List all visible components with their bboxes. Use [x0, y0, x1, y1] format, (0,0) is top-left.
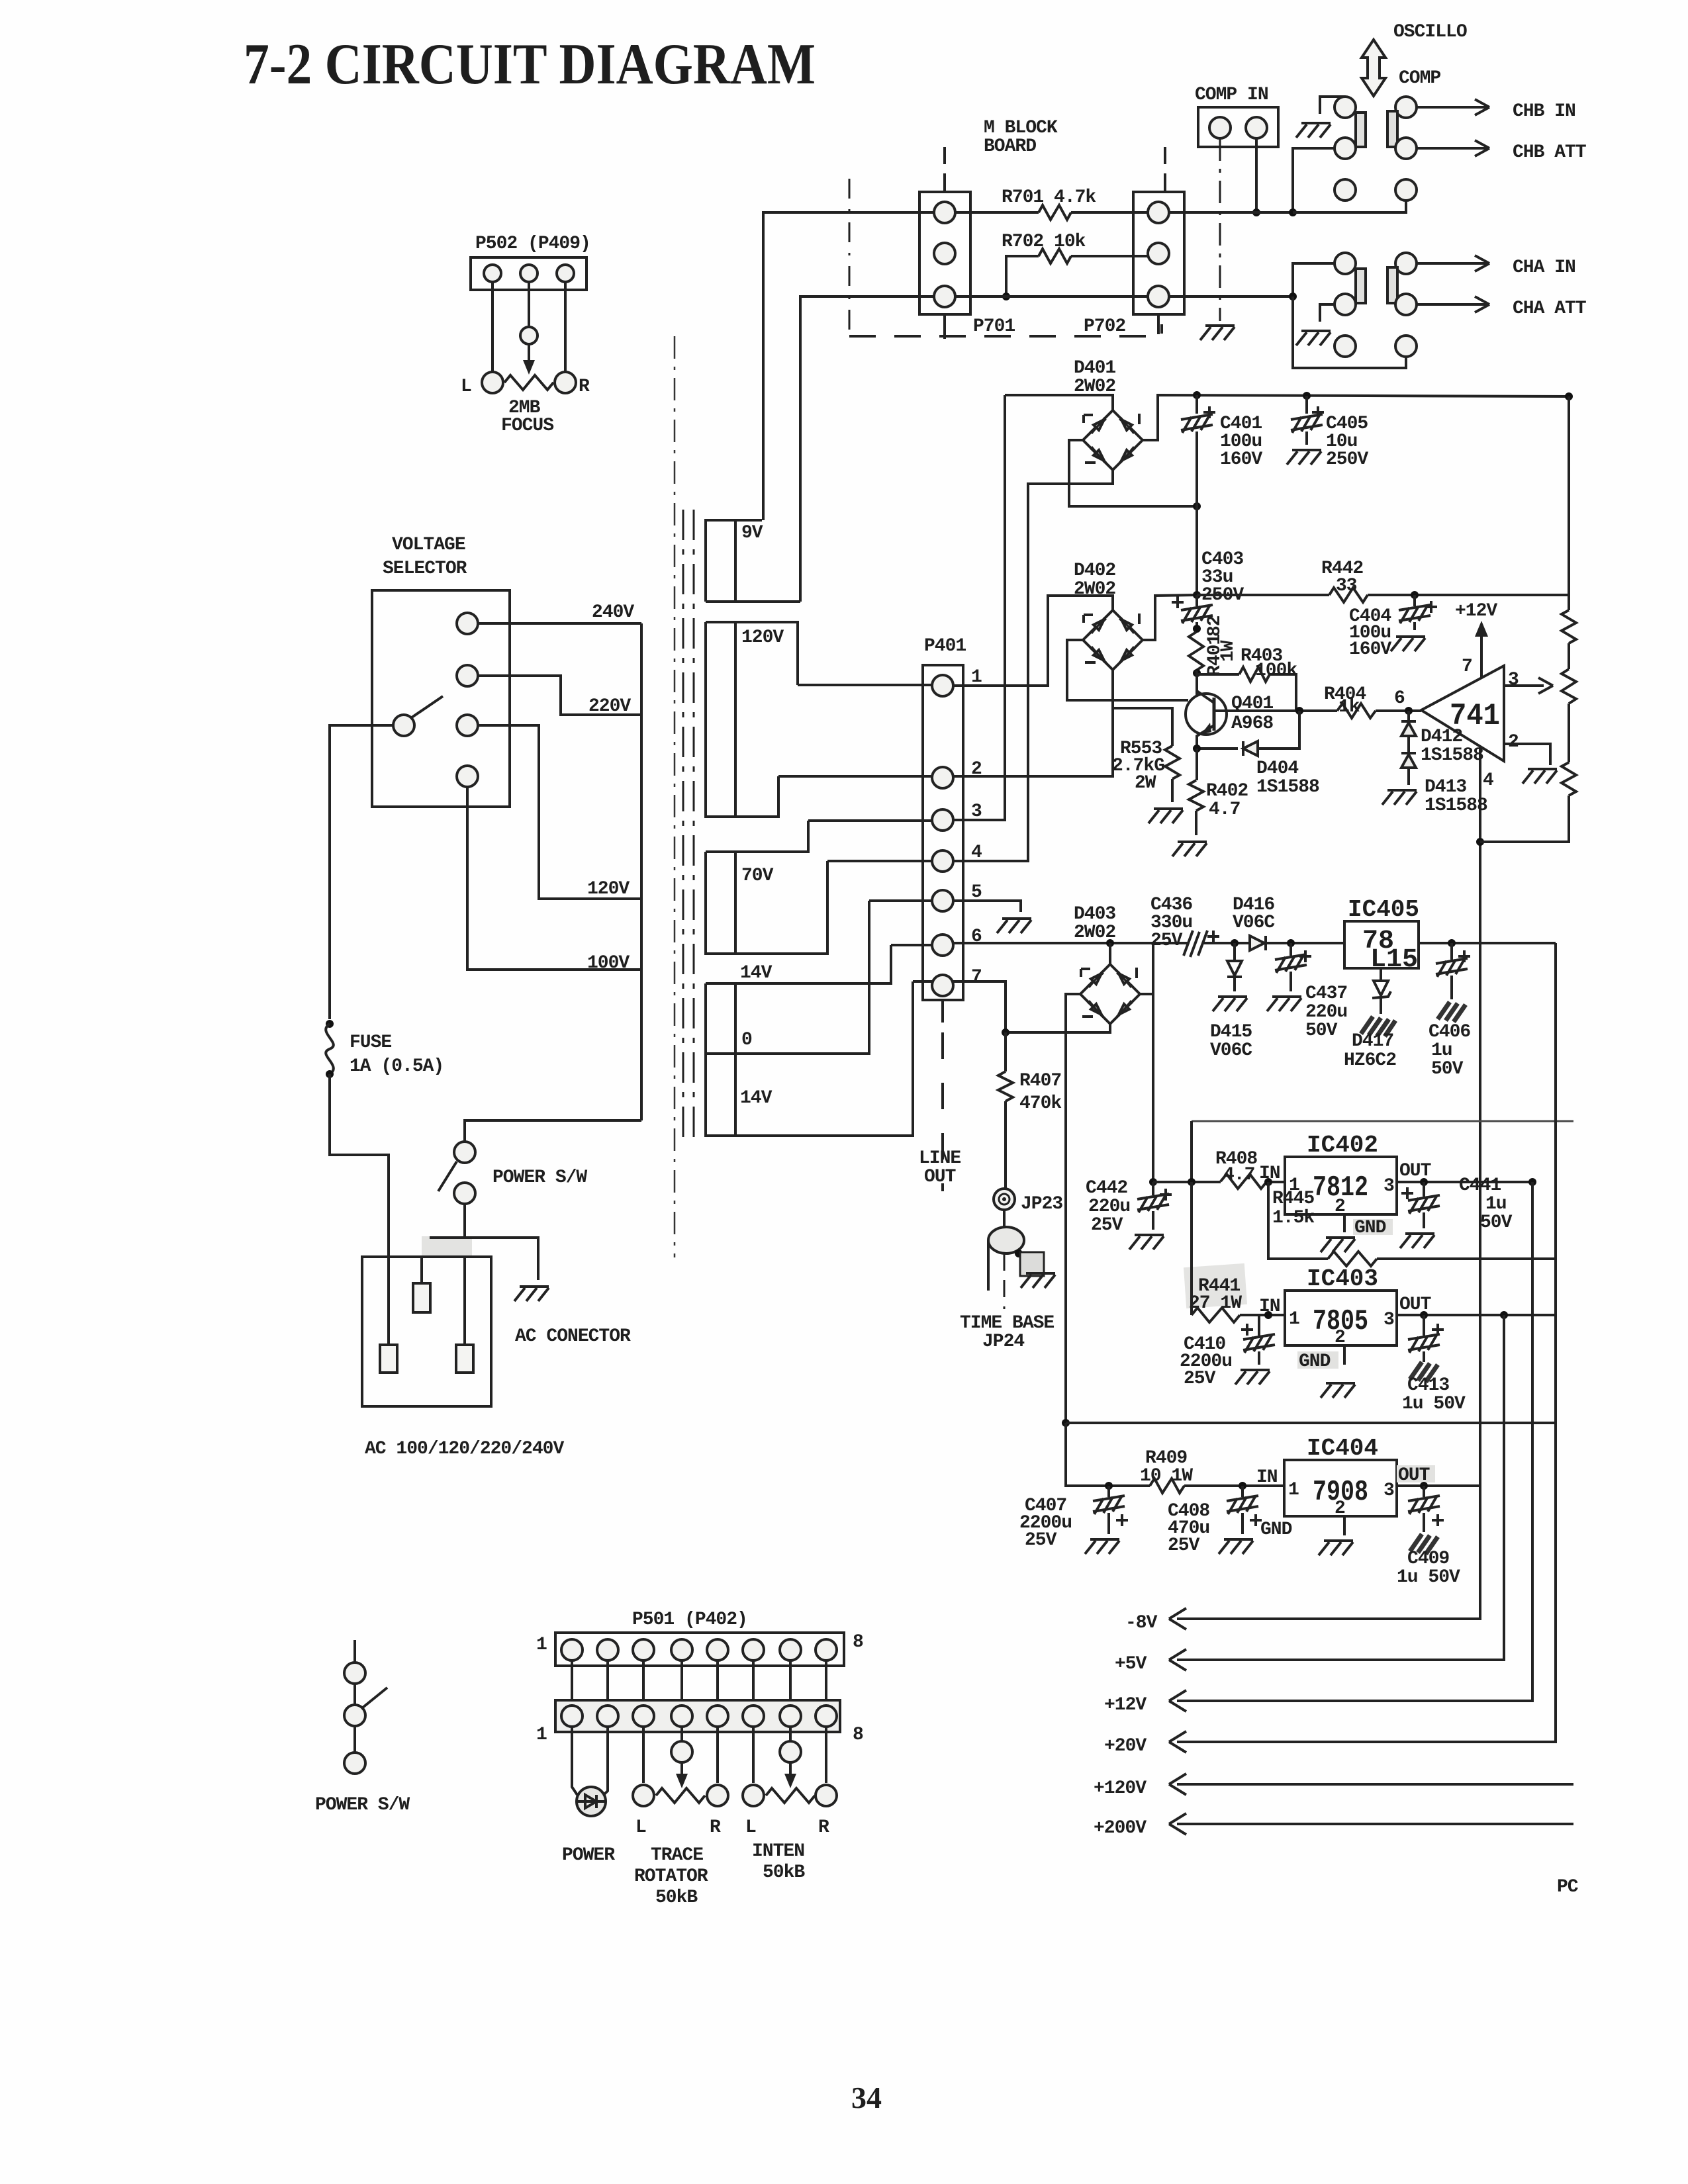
svg-text:9V: 9V — [741, 523, 763, 543]
selector contact 240V — [457, 613, 478, 634]
svg-text:ROTATOR: ROTATOR — [634, 1866, 708, 1887]
gray blob R441 — [1184, 1263, 1247, 1308]
IC404 output rail — [1397, 1484, 1480, 1487]
svg-text:D401: D401 — [1074, 358, 1115, 379]
svg-text:+120V: +120V — [1094, 1778, 1147, 1799]
LED POWER — [577, 1787, 606, 1816]
svg-text:120V: 120V — [741, 627, 784, 648]
switch POWER S/W contact bottom — [454, 1183, 475, 1204]
capacitor C413 — [1423, 1315, 1425, 1362]
AC connector left prong — [380, 1345, 397, 1373]
wire 220V tap — [478, 676, 641, 715]
secondary winding 70V — [706, 821, 827, 954]
svg-text:AC CONECTOR: AC CONECTOR — [515, 1326, 631, 1347]
svg-text:1A (0.5A): 1A (0.5A) — [350, 1056, 444, 1077]
svg-text:4.7: 4.7 — [1209, 799, 1240, 820]
ground at AC connector — [514, 1287, 549, 1301]
resistor R442 — [1329, 588, 1368, 602]
svg-text:AC 100/120/220/240V: AC 100/120/220/240V — [365, 1439, 564, 1459]
wire pin1 to LED — [572, 1727, 577, 1795]
TRACE wiper node — [671, 1741, 692, 1762]
connector P502 pin 1 — [484, 265, 501, 282]
svg-text:IC402: IC402 — [1307, 1132, 1378, 1159]
svg-text:C409: C409 — [1407, 1549, 1449, 1569]
capacitor C409 — [1423, 1486, 1425, 1532]
svg-text:PC: PC — [1557, 1877, 1579, 1897]
ground below C408 — [1219, 1539, 1253, 1554]
TRACE wiper arrow — [680, 1762, 683, 1782]
junction dot D404 left — [1193, 745, 1201, 752]
IC404 input rail — [1109, 1484, 1150, 1487]
bridge rectifier D401 — [1083, 410, 1143, 470]
junction dot C409 — [1420, 1482, 1428, 1490]
svg-text:SELECTOR: SELECTOR — [383, 559, 467, 579]
svg-text:2: 2 — [1508, 732, 1519, 752]
zener diode D415 — [1227, 943, 1242, 991]
wire D403 top corner — [1109, 943, 1111, 964]
node JP23 — [994, 1189, 1015, 1210]
svg-text:25V: 25V — [1150, 931, 1183, 951]
svg-text:3: 3 — [1383, 1176, 1394, 1197]
wire 70V top tap to pin3 — [808, 819, 932, 822]
svg-text:1.5k: 1.5k — [1272, 1208, 1315, 1228]
wire D401 minus corner to lower rail — [1069, 440, 1197, 506]
connector P702 pin 3 — [1148, 286, 1169, 307]
connector P701 pin 3 — [934, 286, 955, 307]
switch POWER S/W bottom-left contact 1 — [344, 1662, 365, 1684]
connector P701 box — [919, 192, 970, 314]
dashed stub above P701 — [943, 147, 946, 191]
P401 pin 6 — [932, 934, 953, 956]
svg-text:+20V: +20V — [1104, 1736, 1147, 1756]
wire CHB IN arrow — [1417, 99, 1489, 115]
IC403 GND pin wire — [1343, 1345, 1346, 1365]
svg-text:3: 3 — [1383, 1310, 1394, 1330]
AC connector shaded bar — [422, 1236, 472, 1257]
wire 100V tap — [467, 787, 641, 970]
svg-text:2: 2 — [1335, 1328, 1345, 1348]
COMP IN pin 2 — [1246, 117, 1267, 138]
capacitor C442 — [1152, 1182, 1154, 1230]
wire pin5 to TRACE pot R — [716, 1727, 719, 1783]
junction dot +12V corner — [1528, 1178, 1536, 1186]
junction dot C408 — [1239, 1482, 1246, 1490]
selector contact 120V — [457, 715, 478, 736]
svg-text:10 1W: 10 1W — [1140, 1466, 1193, 1486]
junction dot base node — [1295, 707, 1303, 715]
potentiometer INTEN — [766, 1788, 815, 1803]
svg-text:7: 7 — [1462, 657, 1472, 677]
svg-text:OUT: OUT — [924, 1167, 956, 1187]
diode D413 — [1407, 736, 1410, 754]
IC402 output rail — [1397, 1181, 1532, 1183]
junction dot CHB riser — [1289, 208, 1297, 216]
ground at IC403 — [1321, 1383, 1355, 1398]
svg-text:P701: P701 — [973, 316, 1015, 337]
resistor R553 — [1165, 746, 1180, 779]
secondary 0 tap — [706, 901, 869, 1136]
junction dot pin7 node — [1002, 1028, 1009, 1036]
selector contact 220V — [457, 665, 478, 686]
wire D401 top corner to AC rail — [1005, 395, 1113, 410]
ground below R402 — [1172, 842, 1207, 856]
connector P502 pin 2 — [520, 265, 538, 282]
junction dot C405 top — [1303, 392, 1311, 400]
junction dot C401 top — [1193, 391, 1201, 399]
IC404 GND pin wire — [1343, 1516, 1346, 1535]
svg-text:1u 50V: 1u 50V — [1402, 1394, 1466, 1414]
shield flag — [1020, 1252, 1044, 1276]
regulator IC403 box — [1285, 1291, 1397, 1345]
svg-text:220u: 220u — [1088, 1197, 1130, 1217]
AC connector box — [362, 1257, 491, 1406]
svg-text:8: 8 — [853, 1725, 863, 1745]
wire R701 to P702 pin1 — [1071, 211, 1148, 214]
secondary winding 120V — [706, 622, 798, 817]
svg-text:GND: GND — [1260, 1520, 1292, 1540]
svg-text:L: L — [635, 1817, 646, 1838]
wire CHA ATT arrow — [1417, 296, 1489, 312]
svg-text:R407: R407 — [1019, 1071, 1061, 1091]
ground below C407 — [1085, 1539, 1119, 1554]
wire R553 to ground — [1171, 779, 1174, 802]
secondary winding 14V upper — [706, 945, 891, 1054]
svg-text:100k: 100k — [1255, 660, 1297, 681]
net +20V arrow — [1177, 943, 1556, 1742]
svg-text:0: 0 — [741, 1030, 752, 1050]
wire power switch to AC connector right prong — [463, 1204, 466, 1345]
junction dot R441 branch — [1188, 1178, 1196, 1186]
svg-text:250V: 250V — [1326, 449, 1368, 470]
op-amp 741 triangle — [1421, 666, 1504, 761]
junction dot — [1252, 208, 1260, 216]
selector common contact — [393, 715, 414, 736]
svg-text:+200V: +200V — [1094, 1818, 1147, 1839]
ground below C441 — [1400, 1234, 1434, 1248]
FOCUS pot terminal R — [555, 372, 576, 393]
svg-text:1: 1 — [1289, 1309, 1299, 1330]
dash-dot wire COMP IN pin1 down to ground — [1219, 138, 1221, 321]
rail y1694 to right — [1192, 1120, 1573, 1122]
hatched mark D417 — [1361, 1017, 1395, 1036]
capacitor C437 — [1289, 943, 1292, 991]
wire P401 pin6 rail to IC405 — [953, 942, 1344, 944]
switch POWER S/W contact top — [454, 1142, 475, 1163]
svg-text:R445: R445 — [1272, 1189, 1314, 1209]
wire down to IC404 input rail — [1066, 1423, 1109, 1486]
POWER S/W lever — [438, 1161, 457, 1191]
wire 70V bottom tap to pin4 — [827, 860, 932, 862]
wire D401 bottom corner to P401 pin4 — [953, 470, 1113, 861]
plus mark C437 — [1299, 950, 1311, 962]
svg-text:FUSE: FUSE — [350, 1032, 391, 1053]
switch CHA contact circles row1 — [1335, 253, 1356, 274]
P501 row1 pins — [561, 1639, 583, 1661]
svg-text:D413: D413 — [1425, 777, 1466, 797]
wire R441 to IC403 — [1240, 1314, 1285, 1316]
junction dot CHA riser — [1289, 293, 1297, 300]
wire 120V tap — [478, 725, 641, 899]
svg-text:R: R — [579, 377, 590, 397]
wire IC405 out rail — [1419, 942, 1556, 944]
switch CHB contact circles row1 — [1335, 97, 1356, 118]
svg-text:120V: 120V — [587, 879, 630, 899]
svg-text:25V: 25V — [1025, 1530, 1057, 1551]
wire primary bottom to power switch — [465, 1120, 641, 1142]
svg-text:25V: 25V — [1184, 1369, 1216, 1389]
svg-text:D412: D412 — [1421, 727, 1462, 747]
connector P702 pin 1 — [1148, 202, 1169, 223]
switch CHA ground — [1320, 304, 1335, 322]
OSCILLO/COMP double arrow — [1362, 40, 1385, 96]
junction dot C403 bottom — [1193, 625, 1201, 633]
svg-text:IN: IN — [1259, 1297, 1280, 1317]
svg-text:C442: C442 — [1086, 1178, 1127, 1199]
resistor chain top — [1568, 396, 1570, 610]
switch contact 3 — [344, 1752, 365, 1774]
svg-text:CHB IN: CHB IN — [1513, 101, 1575, 122]
dash-dot board boundary left of core — [674, 336, 676, 1257]
svg-text:R402: R402 — [1206, 781, 1248, 801]
svg-text:7: 7 — [971, 967, 982, 987]
connector COMP IN box — [1198, 107, 1278, 147]
plus mark C407 — [1116, 1514, 1128, 1526]
switch CHA plate bars — [1356, 269, 1366, 303]
svg-text:50kB: 50kB — [655, 1888, 698, 1908]
svg-text:50V: 50V — [1480, 1212, 1513, 1233]
svg-text:TRACE: TRACE — [651, 1845, 703, 1866]
svg-text:IC403: IC403 — [1307, 1265, 1378, 1293]
bridge rectifier D402 — [1083, 610, 1143, 670]
svg-text:D404: D404 — [1256, 758, 1298, 779]
junction dot rail end right — [1565, 392, 1573, 400]
wire 14V upper tap to pin6 — [891, 944, 932, 946]
svg-text:2: 2 — [1335, 1498, 1345, 1519]
junction dot jack shield — [1015, 1250, 1023, 1257]
svg-text:1u 50V: 1u 50V — [1397, 1567, 1460, 1588]
COMP IN pin 1 — [1209, 117, 1231, 138]
svg-text:D402: D402 — [1074, 561, 1115, 581]
capacitor C407 — [1107, 1486, 1110, 1534]
transistor Q401 A968 — [1186, 694, 1227, 735]
capacitor C441 — [1423, 1182, 1425, 1228]
dashed board boundary left — [849, 179, 851, 336]
junction dot C413 — [1420, 1311, 1428, 1319]
junction dot +5V corner — [1500, 1311, 1508, 1319]
svg-text:3: 3 — [1508, 670, 1519, 690]
regulator IC405 box — [1344, 921, 1419, 968]
diode D412 — [1407, 711, 1410, 723]
wire from IC402 input node down — [1190, 1182, 1193, 1315]
wire P502 pin1 to FOCUS L — [491, 282, 494, 372]
junction dot R401 bottom — [1193, 669, 1201, 677]
svg-text:M BLOCK: M BLOCK — [984, 118, 1058, 138]
junction dot pin6 node — [1405, 707, 1413, 715]
svg-text:IC404: IC404 — [1307, 1435, 1378, 1462]
TIME BASE jack JP24 — [988, 1227, 1024, 1253]
wire pin3 to TRACE pot L — [642, 1727, 645, 1783]
wire CHA IN arrow — [1417, 255, 1489, 271]
resistor chain middle — [1568, 643, 1570, 669]
junction dot D403 top — [1106, 939, 1114, 947]
resistor R409 — [1150, 1479, 1184, 1493]
svg-text:160V: 160V — [1220, 449, 1262, 470]
svg-text:P502 (P409): P502 (P409) — [475, 234, 590, 254]
FOCUS pot terminal L — [482, 372, 503, 393]
svg-text:COMP: COMP — [1399, 68, 1440, 89]
svg-text:160V: 160V — [1349, 639, 1391, 660]
voltage selector box — [372, 590, 510, 807]
wire pin4 to wiper — [680, 1727, 683, 1741]
svg-text:JP24: JP24 — [982, 1332, 1024, 1352]
wire pin7 to wiper — [789, 1727, 792, 1741]
wire 14V lower tap to pin7 — [913, 980, 932, 983]
svg-text:50V: 50V — [1431, 1059, 1464, 1079]
plus mark C410 — [1241, 1324, 1253, 1336]
wire pin6 to INTEN pot L — [752, 1727, 755, 1783]
ground at IC402 — [1321, 1238, 1355, 1252]
junction dot C441 — [1420, 1178, 1428, 1186]
wire D403 right corner riser — [1140, 943, 1153, 994]
ground at IC404 — [1319, 1541, 1353, 1555]
wire D402 plus corner to C403 rail — [1143, 595, 1197, 640]
wire Q401 base to R404 — [1214, 709, 1337, 712]
series diode D416 — [1250, 936, 1266, 950]
svg-text:POWER: POWER — [562, 1845, 615, 1866]
potentiometer TRACE ROTATOR — [656, 1788, 705, 1803]
ground at pin5 — [997, 919, 1031, 933]
stub above — [353, 1640, 356, 1662]
plus mark C436 — [1207, 931, 1219, 942]
switch CHB ground — [1320, 97, 1345, 114]
capacitor C401 — [1196, 395, 1198, 506]
rail minus to right — [1066, 1422, 1556, 1424]
svg-text:240V: 240V — [592, 602, 634, 623]
wire COMP IN pin2 down to CHB rail — [1255, 138, 1258, 212]
switch CHB contact circles row2 — [1335, 138, 1356, 159]
wire 120V bottom tap to pin2 — [778, 775, 932, 778]
junction dot pin4 chain — [1476, 838, 1484, 846]
P501 row2 pins — [561, 1706, 583, 1727]
junction dot C401 bottom — [1193, 502, 1201, 510]
resistor R408 — [1221, 1174, 1267, 1189]
ground below C405 — [1287, 450, 1321, 465]
wire CHA bottom return to row3-right — [1293, 296, 1406, 368]
plus mark C409 — [1432, 1514, 1444, 1526]
+12V arrow into pin7 — [1480, 630, 1483, 678]
svg-text:A968: A968 — [1231, 713, 1273, 734]
connector P401 box — [923, 665, 963, 1000]
ground at jack — [1021, 1273, 1055, 1288]
svg-text:220u: 220u — [1305, 1002, 1347, 1023]
net +200V arrow — [1177, 1823, 1573, 1825]
svg-text:JP23: JP23 — [1021, 1194, 1062, 1214]
svg-text:GND: GND — [1299, 1351, 1331, 1372]
connector P702 box — [1133, 192, 1184, 314]
P401 pin 1 — [932, 675, 953, 696]
INTEN pot terminal L — [743, 1785, 764, 1806]
wire branch down to IC402 input — [1190, 1121, 1193, 1182]
wire P701 pin1 to R701 — [955, 211, 1039, 214]
connector P701 pin 2 — [934, 243, 955, 264]
P401 pin 7 — [932, 975, 953, 996]
switch contact 2 — [344, 1705, 365, 1726]
junction dot D403 minus rail — [1062, 1419, 1070, 1427]
P401 pin 5 — [932, 890, 953, 911]
svg-text:INTEN: INTEN — [752, 1841, 804, 1862]
capacitor C408 — [1241, 1486, 1244, 1534]
svg-text:POWER S/W: POWER S/W — [315, 1795, 410, 1815]
resistor R403 branch — [1197, 673, 1239, 676]
svg-text:1u: 1u — [1431, 1040, 1452, 1061]
ground below C442 — [1129, 1235, 1164, 1250]
junction dot D415 — [1231, 939, 1239, 947]
wire 0 tap to pin5 — [869, 899, 932, 902]
connector P701 pin 1 — [934, 202, 955, 223]
switch CHB contact circles row3 — [1335, 179, 1356, 201]
svg-text:1W: 1W — [1218, 640, 1239, 662]
wire CHB rail to row3-right return — [1293, 201, 1406, 212]
plus mark C401 — [1203, 406, 1215, 418]
svg-text:25V: 25V — [1168, 1535, 1200, 1556]
junction dot C403 top — [1193, 591, 1201, 599]
potentiometer 2MB FOCUS element — [504, 375, 553, 390]
AC connector earth prong — [420, 1257, 423, 1283]
svg-text:+5V: +5V — [1115, 1654, 1147, 1674]
svg-text:34: 34 — [851, 2081, 882, 2115]
svg-text:-8V: -8V — [1125, 1613, 1158, 1633]
wire contact1 to contact2 — [353, 1684, 356, 1705]
AC connector right prong — [456, 1345, 473, 1373]
capacitor C405 — [1305, 396, 1308, 445]
wire P701 pin1 left down to 9V tap — [763, 212, 934, 520]
plus mark C405 — [1312, 406, 1324, 418]
junction dot C437 — [1287, 939, 1295, 947]
svg-text:1k: 1k — [1338, 697, 1360, 717]
net -8V arrow — [1177, 1486, 1480, 1619]
svg-text:L: L — [745, 1817, 756, 1838]
transformer primary winding — [640, 623, 643, 1120]
wire contact2 to contact3 — [353, 1726, 356, 1752]
LINE OUT dashed lead below P401 — [941, 1000, 944, 1023]
connector P501 row2 box — [555, 1700, 840, 1732]
wire AC riser to P401 pin3 — [953, 395, 1005, 820]
junction dot IC402 in — [1264, 1178, 1272, 1186]
wire P502 pin2 to wiper — [528, 282, 530, 326]
IC402 GND pin wire — [1343, 1214, 1346, 1232]
svg-text:C441: C441 — [1459, 1175, 1501, 1196]
label OUT gray — [1397, 1465, 1435, 1482]
connector P501 row1 box — [555, 1633, 844, 1666]
svg-text:OSCILLO: OSCILLO — [1393, 22, 1467, 42]
secondary winding 9V — [706, 520, 800, 602]
hatched mark C406 — [1438, 1002, 1466, 1022]
ground below R553 — [1149, 809, 1183, 823]
svg-text:BOARD: BOARD — [984, 136, 1036, 157]
svg-text:HZ6C2: HZ6C2 — [1344, 1050, 1396, 1071]
svg-text:TIME BASE: TIME BASE — [960, 1313, 1054, 1334]
svg-text:6: 6 — [1394, 688, 1405, 709]
connector P502 box — [471, 257, 586, 290]
wire pin5 to ground — [953, 901, 1021, 912]
capacitor C410 — [1258, 1315, 1260, 1365]
wire D403 left corner loop — [1066, 994, 1110, 1032]
wire CHA rail with riser to row1-left — [1169, 263, 1335, 296]
selector contact 100V — [457, 766, 478, 787]
wire R408 to IC402 — [1267, 1181, 1285, 1183]
wire D402 top corner AC to P401 pin1 riser — [953, 596, 1113, 686]
svg-text:V06C: V06C — [1210, 1040, 1252, 1061]
